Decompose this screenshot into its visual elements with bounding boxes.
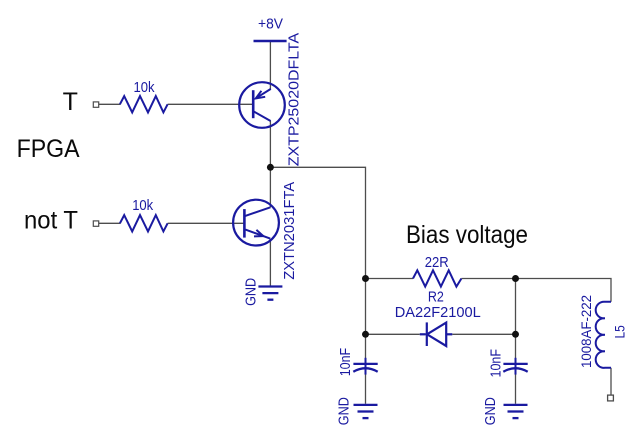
wire: node down to NPN collector [269, 167, 271, 207]
capacitor 10nF (left) [353, 358, 377, 375]
wire: right cap to ground [515, 375, 517, 404]
wire: diode row left [366, 333, 420, 335]
svg-text:1008AF-222: 1008AF-222 [578, 295, 594, 368]
wire: left cap top [365, 334, 367, 358]
svg-text:ZXTN2031FTA: ZXTN2031FTA [281, 181, 298, 280]
power rail +8V [254, 40, 287, 43]
wire: not T input to 10k [99, 222, 120, 224]
wire: 10k to PNP base [168, 103, 253, 105]
svg-text:10k: 10k [134, 80, 156, 96]
svg-text:FPGA: FPGA [17, 135, 80, 163]
ground (emitter) [258, 287, 282, 300]
resistor 10k (top) [120, 96, 168, 112]
ground (left cap) [354, 405, 378, 418]
svg-text:GND: GND [244, 278, 260, 306]
svg-text:10nF: 10nF [338, 348, 354, 377]
node B (right, bias row) [512, 275, 519, 282]
node A (left, bias row) [362, 275, 369, 282]
transistor NPN ZXTN2031FTA [233, 200, 279, 246]
svg-text:DA22F2100L: DA22F2100L [395, 305, 481, 321]
wire: T input to 10k [99, 103, 120, 105]
ground (right cap) [504, 405, 528, 418]
svg-text:Bias voltage: Bias voltage [406, 221, 528, 249]
node: diode row right junction [512, 331, 519, 338]
terminal T input [93, 102, 98, 107]
diode DA22F2100L [420, 322, 453, 346]
wire: node to bias network corner [270, 167, 365, 278]
wire: PNP collector down to node [269, 121, 271, 168]
wire: left cap to ground [365, 375, 367, 404]
inductor L5 1008AF-222 [596, 302, 611, 368]
svg-text:GND: GND [336, 397, 352, 425]
resistor 10k (bottom) [120, 215, 168, 231]
node: diode row left junction [362, 331, 369, 338]
wire: inductor to output terminal [610, 368, 612, 395]
wire: R2 to inductor corner [461, 279, 611, 302]
wire: node A down to diode row [365, 279, 367, 335]
svg-text:T: T [63, 88, 78, 116]
svg-text:ZXTP25020DFLTA: ZXTP25020DFLTA [285, 32, 302, 166]
wire: 10k to NPN base [168, 222, 244, 224]
svg-text:GND: GND [483, 397, 499, 425]
terminal not T input [93, 221, 98, 226]
capacitor 10nF (right) [503, 358, 527, 375]
resistor R2 22R [413, 270, 461, 286]
terminal output [608, 395, 614, 401]
wire: node B down to diode row [515, 279, 517, 335]
wire: node A to R2 [366, 278, 414, 280]
svg-text:10k: 10k [132, 198, 154, 214]
svg-text:not T: not T [24, 207, 78, 235]
wire: +8V rail down to PNP emitter [269, 42, 271, 90]
svg-text:R2: R2 [428, 289, 444, 305]
wire: diode row right [452, 333, 515, 335]
wire: right cap top [515, 334, 517, 358]
transistor PNP ZXTP25020DFLTA [239, 82, 285, 128]
node: push-pull output junction [267, 164, 274, 171]
svg-text:+8V: +8V [258, 17, 283, 33]
wire: NPN emitter to ground [269, 239, 271, 286]
svg-text:10nF: 10nF [489, 349, 505, 378]
svg-text:22R: 22R [425, 255, 449, 271]
svg-text:L5: L5 [612, 325, 628, 338]
